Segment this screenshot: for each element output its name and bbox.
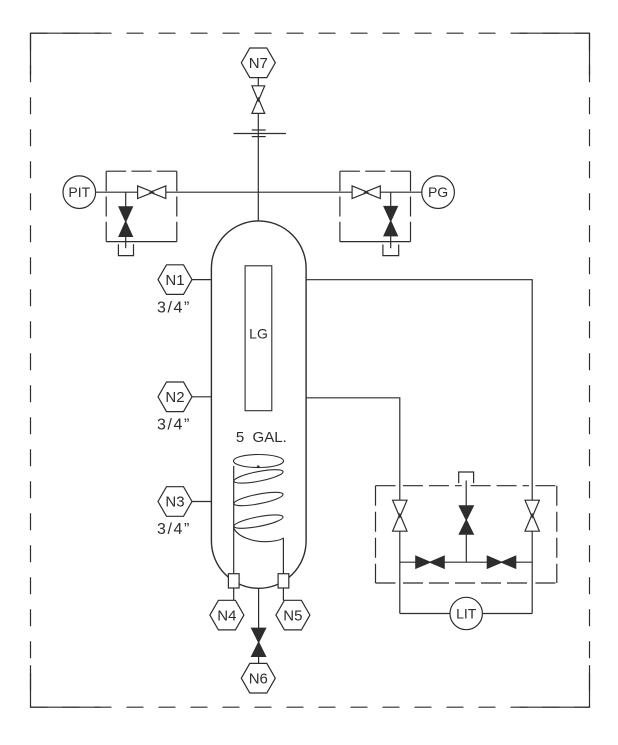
nozzle N7 hexagon <box>241 48 275 78</box>
valve (open, vertical) manifold right <box>525 500 539 531</box>
wire coil left leg <box>233 466 235 574</box>
wire valve to vessel top <box>257 113 259 220</box>
svg-text:5 GAL.: 5 GAL. <box>236 429 287 446</box>
wire left to LIT <box>400 613 450 615</box>
valve (open, vertical) manifold left <box>393 500 407 531</box>
vent symbol above manifold center <box>459 472 474 483</box>
nozzle N6 hexagon <box>241 663 275 693</box>
svg-text:LIT: LIT <box>456 605 477 621</box>
right instrument dashed box <box>340 171 411 241</box>
valve (filled, vertical) in right box <box>384 207 397 236</box>
valve (open, horizontal) in left instrument box <box>138 186 166 199</box>
left instrument dashed box <box>106 171 177 241</box>
wire N7 to valve <box>257 78 259 86</box>
valve (open, vertical) below N7 <box>252 86 265 114</box>
svg-text:LG: LG <box>249 326 268 342</box>
svg-text:PG: PG <box>428 184 448 200</box>
svg-text:3/4”: 3/4” <box>157 299 191 316</box>
nozzle flange square left <box>228 574 239 588</box>
nozzle flange square right <box>278 574 289 588</box>
manifold dashed box <box>376 486 557 583</box>
wire coil right leg <box>282 538 284 574</box>
wire valve to vent right <box>390 236 392 248</box>
wire N2 to vessel <box>192 396 211 398</box>
svg-text:N1: N1 <box>165 272 184 289</box>
wire center valve to manifold line <box>465 534 467 562</box>
wire manifold right valve to LIT level <box>531 531 533 613</box>
wire N1 to vessel <box>192 279 211 281</box>
svg-text:3/4”: 3/4” <box>157 417 191 434</box>
svg-text:N4: N4 <box>217 607 236 624</box>
wire flange to N4 <box>233 588 235 601</box>
wire valve to vent left <box>125 236 127 248</box>
valve (filled, horizontal) manifold left <box>416 556 444 568</box>
wire main header PIT to PG <box>96 191 422 193</box>
wire vent to center valve <box>465 481 467 506</box>
wire vessel bottom to valve <box>258 588 260 628</box>
vessel outline <box>211 221 306 588</box>
valve (open, horizontal) in right instrument box <box>352 186 380 199</box>
svg-text:N6: N6 <box>249 670 268 687</box>
wire branch in right box <box>390 192 392 206</box>
wire valve to N6 <box>258 656 260 663</box>
vent symbol below right box <box>383 245 399 256</box>
level gauge LG rectangle <box>245 266 272 411</box>
instrument LIT circle <box>450 597 482 629</box>
vent symbol below left box <box>118 244 133 255</box>
svg-text:PIT: PIT <box>68 184 90 200</box>
pipe break / flange symbol <box>234 130 286 137</box>
heating coil <box>233 455 284 542</box>
svg-text:3/4”: 3/4” <box>157 521 191 538</box>
valve (filled, horizontal) manifold right <box>487 556 515 568</box>
valve (filled, vertical) in left box <box>119 207 132 237</box>
nozzle N1 hexagon <box>158 265 192 295</box>
instrument PG circle <box>422 176 455 209</box>
wire N3 to vessel <box>192 501 211 503</box>
svg-text:N7: N7 <box>249 55 268 72</box>
nozzle N4 hexagon <box>210 600 244 630</box>
wire flange to N5 <box>282 588 284 601</box>
wire manifold left valve to LIT level <box>399 531 401 613</box>
nozzle N5 hexagon <box>276 600 310 630</box>
nozzle N3 hexagon <box>158 487 192 517</box>
wire vessel right upper to manifold <box>306 280 532 501</box>
wire manifold horizontal <box>400 561 532 563</box>
nozzle N2 hexagon <box>158 382 192 412</box>
svg-text:N2: N2 <box>165 389 184 406</box>
valve (filled, vertical) manifold center <box>459 506 473 534</box>
valve (filled, vertical) above N6 <box>252 628 266 656</box>
wire right to LIT <box>482 613 532 615</box>
wire vessel right lower to manifold <box>306 398 400 500</box>
instrument PIT circle <box>63 176 96 209</box>
svg-text:N5: N5 <box>283 607 302 624</box>
svg-text:N3: N3 <box>165 494 184 511</box>
wire branch in left box <box>125 192 127 207</box>
